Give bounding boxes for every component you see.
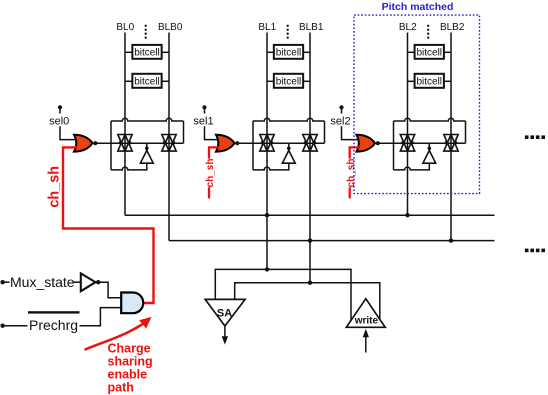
bitcell box col0 row0 bbox=[125, 45, 169, 59]
node sel2 bbox=[330, 105, 359, 139]
svg-text:bitcell: bitcell bbox=[276, 77, 302, 88]
transmission gate col1 BLB bbox=[303, 135, 317, 152]
OR gate U0 (column select, orange) bbox=[74, 135, 97, 152]
inverter col2 (complement control) bbox=[423, 143, 436, 163]
annotation box: pitch matched (blue dashed) bbox=[354, 15, 480, 194]
wire ch_sh main path (red, from AND gate to column OR gates) bbox=[63, 147, 154, 303]
bitcell box col2 row0 bbox=[408, 45, 452, 59]
svg-text:write: write bbox=[354, 315, 379, 326]
wire BL0 vertical bbox=[124, 33, 126, 216]
node sel1 bbox=[193, 105, 218, 139]
wire mux control line col1 bbox=[237, 142, 324, 144]
bitcell box col0 row1 bbox=[125, 74, 169, 88]
mux routing box col0 (gate wiring loop with wire hops) bbox=[111, 118, 184, 170]
svg-text:BLB1: BLB1 bbox=[299, 22, 324, 33]
OR gate U1 (column select, orange) bbox=[216, 135, 239, 152]
OR gate U2 (column select, orange) bbox=[357, 135, 380, 152]
svg-text:sel1: sel1 bbox=[193, 115, 213, 127]
transmission gate col0 BLB bbox=[162, 135, 176, 152]
svg-text:BL1: BL1 bbox=[258, 22, 276, 33]
svg-text:ch_sh: ch_sh bbox=[205, 159, 216, 188]
ellipsis dots between BL1 and BLB1 bbox=[287, 25, 289, 39]
transmission gate col1 BL bbox=[260, 135, 274, 152]
wire BLB1 vertical bbox=[309, 33, 311, 283]
svg-text:sel2: sel2 bbox=[330, 115, 350, 127]
wire ch_sh stub col2 (red) bbox=[350, 147, 360, 198]
svg-text:BLB2: BLB2 bbox=[440, 22, 465, 33]
svg-text:sel0: sel0 bbox=[49, 115, 69, 127]
wire mux control line col2 bbox=[378, 142, 466, 144]
node Mux_state input bbox=[0, 274, 80, 290]
inverter col0 (complement control) bbox=[140, 143, 153, 163]
svg-text:Prechrg: Prechrg bbox=[29, 317, 78, 333]
transmission gate col0 BL bbox=[118, 135, 132, 152]
mux routing box col2 (gate wiring loop with wire hops) bbox=[394, 118, 466, 170]
buffer write driver bbox=[346, 299, 385, 353]
svg-text:bitcell: bitcell bbox=[276, 48, 302, 59]
svg-text:bitcell: bitcell bbox=[416, 48, 442, 59]
svg-text:bitcell: bitcell bbox=[416, 77, 442, 88]
bitcell box col2 row1 bbox=[408, 74, 452, 88]
ellipsis dots between BL2 and BLB2 bbox=[427, 25, 429, 39]
svg-text:SA: SA bbox=[217, 307, 232, 319]
wire BL1 vertical bbox=[266, 33, 268, 270]
inverter col1 (complement control) bbox=[282, 143, 295, 163]
svg-text:Pitch matched: Pitch matched bbox=[382, 1, 454, 13]
ellipsis continuation dots upper right bbox=[525, 135, 545, 139]
svg-text:bitcell: bitcell bbox=[134, 77, 160, 88]
svg-text:sharing: sharing bbox=[108, 355, 153, 369]
annotation arrow (red, charge sharing path) bbox=[85, 323, 145, 350]
ellipsis continuation dots lower right bbox=[525, 249, 545, 253]
bitcell box col1 row1 bbox=[267, 74, 310, 88]
svg-text:Charge: Charge bbox=[108, 341, 151, 355]
svg-text:path: path bbox=[108, 381, 134, 395]
wire BL bus (horizontal) bbox=[125, 213, 495, 217]
wire sense line B (BLB side to SA and write) bbox=[235, 283, 380, 321]
svg-text:ch_sh: ch_sh bbox=[46, 166, 62, 208]
transmission gate col2 BLB bbox=[444, 135, 458, 152]
transmission gate col2 BL bbox=[400, 135, 414, 152]
buffer B1 (Mux_state) bbox=[81, 273, 121, 297]
svg-text:enable: enable bbox=[108, 368, 148, 382]
wire ch_sh stub col1 (red) bbox=[209, 147, 220, 198]
node sel0 bbox=[49, 105, 76, 139]
svg-text:BL0: BL0 bbox=[116, 22, 134, 33]
wire BLB bus (horizontal) bbox=[169, 238, 495, 242]
wire BLB2 vertical bbox=[450, 33, 452, 241]
svg-text:BL2: BL2 bbox=[399, 22, 417, 33]
annotation text: Charge sharing enable path (red) bbox=[108, 341, 153, 394]
svg-text:bitcell: bitcell bbox=[134, 48, 160, 59]
svg-text:BLB0: BLB0 bbox=[158, 22, 183, 33]
op-amp SA (sense amplifier) bbox=[205, 299, 245, 344]
ellipsis dots between BL0 and BLB0 bbox=[145, 25, 147, 39]
wire BL2 vertical bbox=[407, 33, 409, 216]
svg-text:Mux_state: Mux_state bbox=[10, 274, 75, 290]
wire mux control line col0 bbox=[95, 142, 183, 144]
and-gate G1 (charge sharing enable) bbox=[121, 293, 143, 314]
node Prechrg input (active-low, overbar) bbox=[0, 308, 121, 334]
wire sense line A (BL side to SA and write) bbox=[215, 269, 351, 320]
mux routing box col1 (gate wiring loop with wire hops) bbox=[253, 118, 325, 170]
bitcell box col1 row0 bbox=[267, 45, 310, 59]
wire BLB0 vertical bbox=[168, 33, 170, 241]
svg-text:ch_sh: ch_sh bbox=[346, 159, 357, 188]
